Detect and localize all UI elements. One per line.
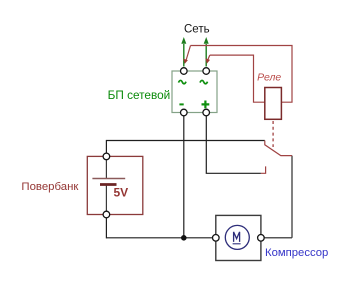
svg-text:Реле: Реле bbox=[257, 72, 281, 84]
svg-text:БП сетевой: БП сетевой bbox=[108, 88, 171, 102]
svg-text:Сеть: Сеть bbox=[184, 23, 210, 35]
svg-text:Компрессор: Компрессор bbox=[265, 247, 328, 259]
svg-text:5V: 5V bbox=[114, 186, 129, 200]
svg-text:Повербанк: Повербанк bbox=[21, 181, 79, 193]
